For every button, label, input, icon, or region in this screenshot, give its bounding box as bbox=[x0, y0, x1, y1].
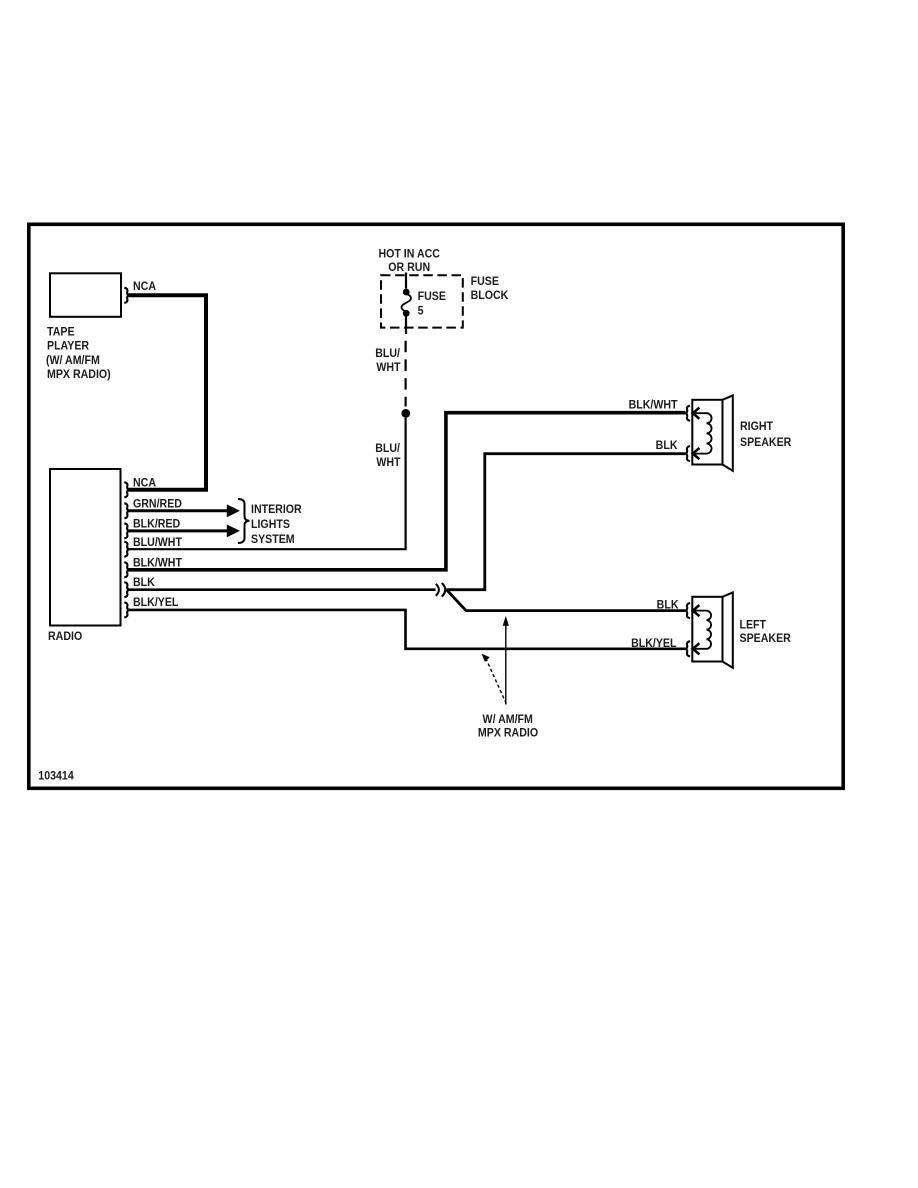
wire BLK to right speaker bbox=[447, 454, 686, 590]
svg-text:W/ AM/FM: W/ AM/FM bbox=[483, 713, 533, 726]
left speaker bbox=[692, 592, 733, 667]
svg-text:BLOCK: BLOCK bbox=[471, 290, 509, 303]
label INTERIOR LIGHTS SYSTEM bbox=[251, 504, 302, 547]
wire power to fuse bbox=[405, 273, 407, 289]
wire BLK/WHT radio to right speaker bbox=[129, 413, 686, 570]
svg-text:BLK/RED: BLK/RED bbox=[133, 518, 180, 531]
wire BLU/WHT fuse output (dashed) bbox=[405, 341, 407, 407]
svg-text:NCA: NCA bbox=[133, 280, 156, 293]
svg-text:FUSE: FUSE bbox=[418, 291, 447, 304]
svg-text:BLK/YEL: BLK/YEL bbox=[631, 637, 677, 650]
svg-text:NCA: NCA bbox=[133, 477, 156, 490]
wire BLK/RED arrow to interior lights bbox=[129, 525, 240, 538]
label W/ AM/FM MPX RADIO bbox=[478, 713, 538, 739]
label GRN/RED bbox=[133, 498, 182, 511]
label BLK/WHT (right speaker) bbox=[629, 399, 678, 412]
label BLK (radio) bbox=[133, 577, 155, 590]
wire BLK/YEL radio to left speaker bbox=[129, 610, 686, 649]
svg-text:BLK: BLK bbox=[133, 577, 155, 590]
brace interior lights bbox=[238, 499, 250, 543]
label BLK (right speaker) bbox=[656, 439, 678, 452]
label BLK/RED bbox=[133, 518, 180, 531]
svg-text:5: 5 bbox=[418, 305, 424, 318]
label 103414 bbox=[38, 770, 74, 783]
fuse F5 bbox=[402, 289, 411, 334]
svg-text:OR RUN: OR RUN bbox=[388, 262, 430, 275]
wire GRN/RED arrow to interior lights bbox=[129, 504, 240, 517]
svg-text:INTERIOR: INTERIOR bbox=[251, 504, 302, 517]
svg-text:TAPE: TAPE bbox=[47, 326, 75, 339]
svg-text:SPEAKER: SPEAKER bbox=[740, 437, 791, 450]
label FUSE BLOCK bbox=[471, 276, 509, 303]
svg-text:GRN/RED: GRN/RED bbox=[133, 498, 182, 511]
svg-text:RIGHT: RIGHT bbox=[740, 421, 773, 434]
svg-text:PLAYER: PLAYER bbox=[47, 340, 89, 353]
connector pin GRN/RED bbox=[124, 503, 129, 518]
label BLK/YEL (left speaker) bbox=[631, 637, 677, 650]
wire BLK branch to left speaker bbox=[447, 590, 686, 611]
label BLK (left speaker) bbox=[657, 599, 679, 612]
connector right speaker BLK/WHT bbox=[686, 406, 700, 421]
connector right speaker BLK bbox=[686, 446, 700, 461]
splice node bbox=[401, 409, 410, 418]
svg-text:SPEAKER: SPEAKER bbox=[740, 633, 791, 646]
svg-text:LEFT: LEFT bbox=[740, 619, 767, 632]
connector pin NCA (radio) bbox=[124, 482, 129, 497]
svg-text:BLK/WHT: BLK/WHT bbox=[133, 557, 182, 570]
connector pin BLK (radio) bbox=[124, 582, 129, 597]
label LEFT SPEAKER bbox=[740, 619, 791, 645]
connector pin BLK/YEL (radio) bbox=[124, 602, 129, 617]
svg-text:LIGHTS: LIGHTS bbox=[251, 518, 290, 531]
connector pin BLU/WHT (radio) bbox=[124, 542, 129, 557]
tape player label bbox=[46, 326, 111, 382]
svg-text:MPX RADIO): MPX RADIO) bbox=[47, 369, 111, 382]
svg-text:WHT: WHT bbox=[376, 362, 400, 375]
label HOT IN ACC OR RUN bbox=[378, 248, 440, 274]
wire NCA tape player to radio bbox=[129, 295, 206, 490]
label FUSE 5 bbox=[418, 291, 447, 318]
svg-text:WHT: WHT bbox=[376, 457, 400, 470]
inline connector on BLK wire bbox=[436, 583, 446, 597]
svg-text:BLK: BLK bbox=[656, 439, 678, 452]
svg-text:BLK/WHT: BLK/WHT bbox=[629, 399, 678, 412]
svg-text:BLK: BLK bbox=[657, 599, 679, 612]
connector pin BLK/WHT (radio) bbox=[124, 562, 129, 577]
svg-text:HOT IN ACC: HOT IN ACC bbox=[378, 248, 440, 261]
label RIGHT SPEAKER bbox=[740, 421, 791, 450]
connector pin BLK/RED bbox=[124, 523, 129, 538]
wire BLU/WHT radio to splice bbox=[129, 418, 406, 549]
connector left speaker BLK/YEL bbox=[686, 641, 700, 656]
label BLU/WHT (lower) bbox=[375, 443, 400, 470]
svg-text:BLU/: BLU/ bbox=[375, 443, 400, 456]
right speaker bbox=[692, 395, 733, 470]
label NCA (tape player) bbox=[133, 280, 156, 293]
fuse block (dashed box) bbox=[381, 275, 463, 327]
label BLU/WHT (radio) bbox=[133, 537, 182, 550]
svg-text:SYSTEM: SYSTEM bbox=[251, 534, 295, 547]
svg-text:BLU/: BLU/ bbox=[375, 348, 400, 361]
connector left speaker BLK bbox=[686, 603, 700, 618]
svg-text:FUSE: FUSE bbox=[471, 276, 500, 289]
svg-text:MPX RADIO: MPX RADIO bbox=[478, 727, 538, 740]
label BLU/WHT (upper) bbox=[375, 348, 400, 375]
wire BLK radio to inline connector bbox=[129, 588, 436, 591]
radio box bbox=[50, 469, 121, 626]
svg-text:BLK/YEL: BLK/YEL bbox=[133, 597, 179, 610]
label NCA (radio) bbox=[133, 477, 156, 490]
svg-text:(W/ AM/FM: (W/ AM/FM bbox=[46, 355, 100, 368]
label RADIO bbox=[48, 631, 82, 644]
callout arrow to BLK/YEL wire bbox=[482, 654, 507, 704]
callout arrow to BLK wire bbox=[503, 616, 509, 705]
label BLK/YEL (radio) bbox=[133, 597, 179, 610]
label BLK/WHT (radio) bbox=[133, 557, 182, 570]
tape player box bbox=[50, 273, 121, 317]
svg-text:RADIO: RADIO bbox=[48, 631, 82, 644]
svg-text:BLU/WHT: BLU/WHT bbox=[133, 537, 182, 550]
svg-text:103414: 103414 bbox=[38, 770, 74, 783]
connector pin NCA (tape player) bbox=[124, 288, 129, 303]
